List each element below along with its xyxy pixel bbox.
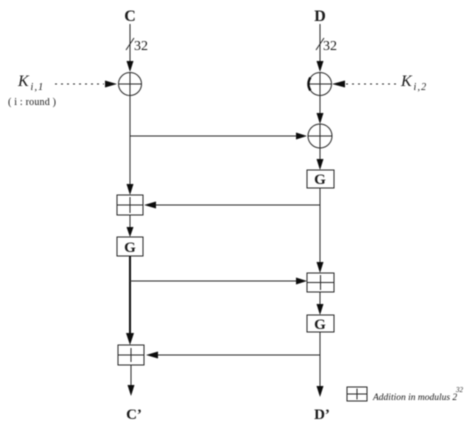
- legend adder symbol: [347, 387, 367, 401]
- sbox G1: [117, 237, 143, 256]
- wire G1 down to A3 (thick): [126, 256, 134, 345]
- wire A3 output to C': [128, 365, 135, 396]
- svg-text:32: 32: [323, 39, 337, 54]
- wire branch G1 to A2: [130, 278, 307, 285]
- svg-text:K: K: [400, 73, 413, 90]
- legend text Addition in modulus 2^32: [372, 386, 464, 403]
- svg-text:32: 32: [455, 386, 464, 394]
- key label Ki,1: [17, 73, 44, 93]
- adder A1: [117, 195, 143, 215]
- xor X3: [308, 124, 332, 148]
- svg-text:( i : round ): ( i : round ): [8, 97, 56, 108]
- xor X1: [119, 73, 142, 96]
- adder A3: [118, 345, 144, 365]
- svg-text:D: D: [314, 8, 326, 25]
- xor X2: [308, 73, 331, 96]
- svg-text:C’: C’: [126, 407, 142, 422]
- bus width label /32 left: [126, 38, 148, 54]
- wire A2 to G3: [317, 292, 324, 315]
- wire D input: [317, 24, 324, 72]
- svg-text:G: G: [124, 240, 136, 256]
- key label Ki,2: [400, 73, 427, 93]
- wire X2 to X3: [317, 96, 324, 125]
- svg-text:Addition in modulus 2: Addition in modulus 2: [372, 393, 457, 403]
- wire G2 down to A2: [317, 188, 324, 273]
- svg-text:i,1: i,1: [31, 82, 45, 93]
- wire A1 to G1: [127, 215, 134, 237]
- wire X1 to A1: [127, 96, 134, 196]
- wire X3 to G2: [317, 148, 324, 170]
- wire key1 dotted: [55, 81, 117, 88]
- wire branch X1 to X3: [130, 133, 307, 140]
- output label D': [314, 407, 330, 422]
- node C label: [124, 8, 136, 25]
- svg-text:G: G: [314, 317, 326, 333]
- label (i : round): [8, 97, 56, 108]
- wire G3 branch to A3: [146, 352, 320, 359]
- sbox G3: [307, 315, 334, 333]
- bus width label /32 right: [316, 38, 337, 54]
- wire G3 output to D': [317, 332, 324, 397]
- wire key2 dotted: [332, 81, 398, 88]
- sbox G2: [307, 170, 334, 188]
- wire C input: [127, 24, 134, 72]
- svg-text:32: 32: [134, 39, 148, 54]
- svg-text:G: G: [314, 172, 326, 188]
- node D label: [314, 8, 326, 25]
- wire G2 branch to A1: [144, 202, 320, 209]
- adder A2: [307, 273, 334, 292]
- output label C': [126, 407, 142, 422]
- svg-text:D’: D’: [314, 407, 330, 422]
- svg-text:C: C: [124, 8, 136, 25]
- svg-text:K: K: [17, 73, 30, 90]
- svg-text:i,2: i,2: [414, 82, 428, 93]
